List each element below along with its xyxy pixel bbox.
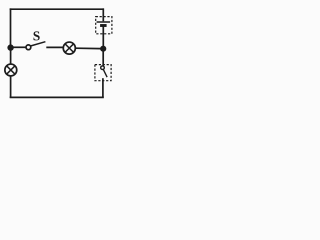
battery G1 (long positive plate)	[97, 21, 111, 23]
wire: switch fixed contact to lamp L2	[46, 46, 63, 48]
battery G1 enclosure (dashed box)	[96, 17, 112, 34]
battery G1 (short thick negative plate)	[100, 24, 107, 27]
wire: right rail upper (top corner to battery top plate)	[102, 8, 104, 21]
switch S (pivot circle, open lever, fixed contact), label S	[26, 31, 45, 49]
wire: switch S2 bottom contact to bottom wire	[102, 78, 104, 97]
wire: left rail (node A to lamp L1)	[10, 47, 12, 64]
wire: left rail upper segment (top corner to node A)	[10, 8, 12, 46]
wire: node B to switch S2 pivot	[102, 49, 104, 66]
wire: bottom (left rail to right rail)	[10, 96, 104, 98]
wire: lamp L1 to bottom wire	[10, 76, 12, 98]
node A (left junction dot)	[7, 44, 13, 50]
node B (right junction dot)	[100, 46, 106, 52]
lamp L1 (left rail lamp, circle with cross)	[5, 64, 17, 76]
wire: top (left rail top to right rail top)	[10, 8, 104, 10]
wire: battery negative plate to node B	[102, 26, 104, 46]
lamp L2 (middle branch, circle with cross)	[63, 42, 75, 54]
switch S2 (pivot circle and open lever, inside dashed box)	[101, 66, 107, 77]
wire: node A to switch S pivot	[11, 46, 26, 48]
wire: lamp L2 to node B	[75, 47, 100, 49]
switch S2 enclosure (dashed box)	[95, 65, 111, 81]
